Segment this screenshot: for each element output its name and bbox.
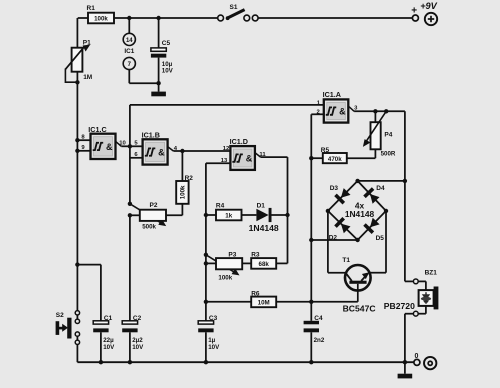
svg-text:100k: 100k (180, 185, 187, 199)
wire left rail to S2 top contact (76, 265, 78, 311)
resistor R1 (88, 13, 114, 24)
potentiometer P3 100k (206, 255, 235, 273)
svg-text:500R: 500R (381, 150, 396, 157)
wire ground rail (77, 361, 413, 363)
capacitor C1 22u 10V (93, 321, 108, 324)
svg-text:C4: C4 (314, 315, 323, 322)
svg-text:P4: P4 (384, 131, 392, 138)
svg-text:0: 0 (415, 353, 419, 360)
svg-text:BZ1: BZ1 (425, 269, 438, 276)
wire +9V top rail right segment (258, 17, 413, 19)
svg-text:PB2720: PB2720 (384, 301, 415, 311)
wire left rail P1 to IC1.C pins (76, 82, 78, 140)
svg-text:10: 10 (119, 140, 126, 146)
op-amp gate IC1.C (91, 134, 116, 159)
svg-text:S2: S2 (56, 312, 64, 319)
junction dot ground C2 (128, 360, 132, 364)
junction dot D1 out (285, 213, 289, 217)
svg-text:C3: C3 (209, 315, 218, 322)
svg-text:100k: 100k (218, 274, 232, 281)
svg-text:R4: R4 (216, 203, 225, 210)
resistor R3 68k (251, 258, 276, 269)
svg-text:10V: 10V (208, 344, 220, 351)
wire IC1.C pin10 output (116, 141, 122, 146)
svg-text:P2: P2 (150, 202, 158, 209)
wire V2 P2 to C2 (129, 215, 131, 321)
svg-text:10V: 10V (162, 68, 174, 75)
wire pin13 node down (205, 215, 207, 255)
svg-text:S1: S1 (230, 4, 238, 11)
capacitor C4 2n2 (310, 302, 312, 321)
junction dot bridge bottom branch (309, 238, 313, 242)
diode D2 (341, 224, 351, 234)
junction dot ground C3 (204, 360, 208, 364)
wire V2 gate segment (129, 146, 131, 204)
junction dot IC1.B out R2 (180, 149, 184, 153)
wire D1 node down (287, 215, 289, 263)
op-amp gate IC1.A (324, 99, 349, 122)
diode D5 (370, 218, 380, 228)
svg-text:&: & (158, 147, 165, 157)
wire IC1.B pin6 (130, 157, 143, 159)
svg-text:10V: 10V (132, 344, 144, 351)
svg-text:1N4148: 1N4148 (249, 223, 279, 233)
junction dot P3 wiper (204, 253, 208, 257)
junction dot IC1 pin14 branch (127, 16, 131, 20)
svg-text:500k: 500k (142, 224, 156, 231)
svg-text:11: 11 (259, 152, 266, 158)
wire bridge bottom branch (311, 239, 357, 241)
junction dot bridge left (326, 209, 330, 213)
capacitor C5 10u 10V (158, 18, 160, 48)
wire IC1.A pin2 (311, 113, 324, 115)
transistor T1 BC547C (327, 211, 329, 273)
capacitor C3 1u 10V (198, 321, 213, 324)
wire pin3 to right rail (404, 111, 406, 281)
wire +9V top rail left segment (78, 17, 218, 19)
buzzer BZ1 PB2720 (413, 279, 418, 284)
svg-text:IC1.B: IC1.B (142, 131, 160, 140)
svg-text:2µ2: 2µ2 (132, 337, 143, 344)
wire R3 to D1 node (276, 262, 287, 264)
junction dot P1 bottom (75, 80, 79, 84)
wire IC1.D pin13 (206, 162, 231, 164)
wire C1 branch (77, 264, 101, 266)
svg-text:14: 14 (126, 38, 133, 44)
svg-text:IC1.D: IC1.D (230, 137, 248, 146)
wire bridge top branch (358, 180, 405, 182)
ground symbol top (158, 83, 160, 91)
junction dot P3 left (204, 261, 208, 265)
svg-text:2n2: 2n2 (314, 337, 325, 344)
junction dot C1 branch (75, 262, 79, 266)
ground symbol bottom (404, 362, 406, 374)
junction dot ground C1 (99, 360, 103, 364)
resistor R2 100k (181, 151, 183, 181)
junction dot pin8 (75, 138, 79, 142)
svg-text:IC1.C: IC1.C (88, 125, 106, 134)
wire IC1.A pin3 output (348, 106, 354, 111)
junction dot R6 left (204, 300, 208, 304)
wire R1 left to P1 (76, 18, 78, 48)
svg-text:C1: C1 (104, 315, 113, 322)
svg-text:+: + (411, 6, 417, 17)
svg-text:D2: D2 (329, 235, 338, 242)
wire IC1.C pin9 (77, 150, 90, 152)
junction dot bridge top branch (403, 179, 407, 183)
potentiometer P2 500k (128, 202, 132, 206)
IC1 supply pins 14 and 7 (128, 18, 130, 33)
svg-text:C2: C2 (133, 315, 142, 322)
svg-text:P1: P1 (83, 39, 91, 46)
wire node down4 (205, 302, 207, 321)
diode D4 (370, 194, 380, 204)
wire left rail (76, 140, 78, 151)
svg-text:&: & (246, 153, 253, 163)
wire S2 to ground rail (76, 344, 78, 362)
potentiometer P4 500R (373, 109, 377, 113)
svg-text:100k: 100k (94, 16, 108, 23)
junction dot C5 ground (156, 81, 160, 85)
svg-text:IC1.A: IC1.A (323, 90, 341, 99)
wire IC1.C pin8 (77, 139, 90, 141)
wire IC1.B pin5 (130, 145, 143, 147)
svg-text:&: & (339, 106, 346, 116)
diode D1 1N4148 (242, 214, 257, 216)
svg-text:&: & (106, 142, 113, 152)
svg-text:D1: D1 (257, 202, 266, 209)
wire node down3 (205, 263, 207, 301)
svg-text:10V: 10V (103, 344, 115, 351)
resistor R4 1k (206, 214, 216, 216)
junction dot ground BZ1 (403, 360, 407, 364)
junction dot ground C4 (309, 360, 313, 364)
svg-text:D4: D4 (376, 185, 385, 192)
junction dot C5 branch (156, 16, 160, 20)
junction dot bridge right (384, 209, 388, 213)
svg-text:R3: R3 (251, 251, 260, 258)
wire bridge diamond (328, 181, 358, 211)
svg-text:13: 13 (221, 158, 228, 164)
svg-text:1µ: 1µ (208, 337, 215, 344)
svg-text:D3: D3 (330, 185, 339, 192)
svg-text:R6: R6 (251, 290, 260, 297)
junction dot bridge bottom (355, 238, 359, 242)
svg-text:470k: 470k (328, 156, 342, 163)
wire R5 to P4 (347, 157, 376, 159)
wire pin2 vertical (310, 158, 312, 302)
op-amp gate IC1.B (143, 139, 168, 164)
wire IC1.B pin4 output (168, 147, 174, 151)
svg-text:R5: R5 (321, 147, 330, 154)
junction dot IC1.C out (128, 144, 132, 148)
pushbutton S2 (75, 311, 79, 315)
wire IC1.A pin1 feedback (130, 104, 324, 106)
capacitor C2 2u2 10V (122, 321, 137, 324)
junction dot R5 left (309, 156, 313, 160)
svg-text:BC547C: BC547C (343, 303, 376, 313)
resistor R6 10M (206, 301, 251, 303)
op-amp gate IC1.D (230, 146, 255, 170)
output terminal 0 (414, 359, 420, 365)
junction dot bridge top (355, 179, 359, 183)
svg-text:R1: R1 (87, 5, 96, 12)
wire R6 to base node (276, 301, 358, 303)
diode D3 (341, 188, 351, 198)
svg-text:+9V: +9V (420, 1, 437, 11)
junction dot base node (309, 300, 313, 304)
svg-text:10M: 10M (258, 300, 270, 307)
svg-text:R2: R2 (185, 175, 194, 182)
svg-text:1N4148: 1N4148 (345, 209, 375, 219)
svg-text:C5: C5 (162, 40, 171, 47)
switch S1 (218, 15, 224, 21)
svg-text:12: 12 (223, 146, 230, 152)
svg-text:1M: 1M (83, 74, 92, 81)
battery terminal +9V (412, 15, 418, 21)
junction dot pin13 R4 (204, 213, 208, 217)
svg-text:P3: P3 (228, 251, 236, 258)
wire left rail down to S2 (76, 151, 78, 265)
potentiometer P1 1M (72, 48, 83, 72)
wire node down2 (205, 255, 207, 264)
svg-text:68k: 68k (259, 261, 270, 268)
svg-text:D5: D5 (376, 235, 385, 242)
svg-text:1k: 1k (225, 213, 232, 220)
svg-text:T1: T1 (342, 257, 350, 264)
svg-text:22µ: 22µ (103, 337, 114, 344)
svg-text:IC1: IC1 (124, 48, 134, 55)
junction dot pin9 (75, 149, 79, 153)
wire IC1.D pin11 output (255, 153, 261, 158)
resistor R5 470k (311, 157, 323, 159)
